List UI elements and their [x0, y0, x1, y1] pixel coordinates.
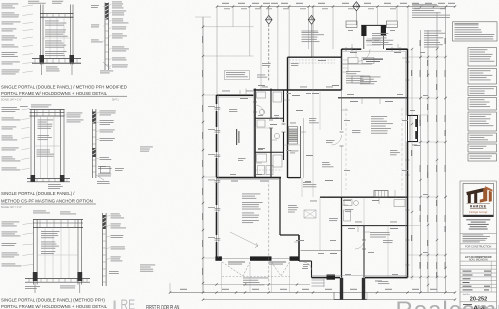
- logo wordmark: [467, 202, 491, 205]
- detail 3 studs: [33, 220, 35, 285]
- garage east wall lower: [280, 234, 299, 236]
- front room window labels: [208, 105, 215, 108]
- detail 2 sill: [27, 178, 70, 180]
- kitchen-greatroom wall: [338, 97, 408, 99]
- bottom dimension lines: [170, 292, 455, 294]
- right dimension rotated texts: [411, 70, 412, 76]
- detail 2 center notes: [38, 120, 54, 129]
- front room west wall: [216, 95, 218, 260]
- shear wall diamond C: [353, 2, 360, 11]
- detail 1: portal frame elevation with holddowns: [2, 4, 19, 9]
- detail 2 right-of-stud labels: [67, 113, 83, 118]
- mid-east wall x341: [341, 49, 343, 90]
- south wall main: [312, 277, 341, 279]
- window ticks on east wall: [406, 61, 410, 63]
- kitchen island: [352, 76, 370, 83]
- hall notes: [303, 182, 316, 187]
- detail 1 center notes: [45, 21, 66, 26]
- garage slope arrows: [230, 232, 258, 246]
- kitchen cabinets detail: [347, 57, 349, 72]
- great room label: [371, 116, 393, 134]
- front room vertical label: [236, 129, 239, 145]
- nook label right: [390, 150, 400, 155]
- detail 3 sill: [25, 278, 90, 280]
- floor plan top dimension line: [217, 6, 455, 8]
- logo box: [463, 184, 494, 217]
- small interior extension lines: [255, 127, 271, 129]
- porch post extensions: [333, 293, 335, 300]
- detail 3 center notes: [41, 231, 60, 238]
- stairs: [289, 129, 298, 141]
- hall vertical reference line: [312, 90, 314, 197]
- detail 1 panel lines: [49, 17, 51, 58]
- detail 1 strip labels: [112, 2, 124, 9]
- master label lower: [370, 232, 390, 237]
- scattered dim texts: [240, 98, 248, 99]
- east exterior wall: [407, 49, 409, 116]
- hall north wall: [254, 89, 342, 91]
- right dimension band extra ticks: [411, 49, 413, 280]
- upper-mid west wall: [287, 57, 289, 178]
- detail 2 strip labels: [100, 111, 116, 116]
- title block rules: [460, 233, 497, 235]
- detail 1 sill plate: [32, 58, 81, 60]
- lower west wall x341: [341, 197, 343, 277]
- stair well wall: [300, 126, 302, 178]
- left extension lines: [203, 26, 254, 28]
- shear wall diamond B: [312, 7, 314, 58]
- entry porch jambs: [361, 25, 366, 36]
- pantry labels: [346, 71, 364, 83]
- interior wall x283: [283, 90, 285, 122]
- kitchen counters: [342, 63, 373, 65]
- garage north wall: [217, 177, 282, 179]
- interior wall x255: [254, 89, 256, 178]
- lower wall x364: [363, 226, 365, 278]
- great room ceiling dashed: [345, 108, 347, 190]
- garage east wall upper: [279, 178, 281, 235]
- left dimension line: [202, 17, 204, 292]
- bay window: [408, 116, 418, 142]
- detail 2 studs: [30, 110, 32, 182]
- extra short tick lines in plan: [239, 90, 241, 95]
- window sill ticks on west wall: [215, 107, 221, 109]
- address lines: [466, 219, 490, 220]
- top right paragraph: [412, 3, 437, 5]
- detail 1 holddowns: [40, 55, 45, 63]
- detail 1 studs: [40, 5, 42, 65]
- rear porch edge: [334, 299, 367, 301]
- lower rooms north wall: [320, 196, 408, 198]
- attic access dashed rect: [304, 210, 316, 218]
- inner face lines of exterior walls: [217, 95, 219, 258]
- garage door edge extension lines: [221, 262, 223, 293]
- mud stoop walls: [299, 260, 312, 262]
- lower wall y225: [342, 225, 408, 227]
- bath partition walls: [255, 117, 284, 119]
- right extension ticks: [408, 56, 446, 58]
- right column small note boxes: [468, 48, 497, 67]
- foyer label: [360, 77, 381, 85]
- title block border: [460, 181, 497, 309]
- general notes box: [453, 22, 498, 41]
- closet shelf dashed lines: [256, 169, 282, 171]
- dining label: [352, 130, 361, 133]
- hall south wall: [301, 250, 342, 252]
- front room north wall: [217, 94, 254, 96]
- title block address bar: [463, 215, 493, 217]
- additional interior text blobs: [229, 109, 237, 112]
- fireplace: [374, 191, 388, 198]
- entry steps: [367, 38, 381, 40]
- kitchen label: [363, 59, 383, 60]
- detail 1 wall section strip: [104, 3, 106, 71]
- extra scattered dimension marks: [222, 90, 230, 93]
- right dimension lines: [420, 30, 422, 292]
- logo mark: [466, 186, 492, 203]
- bath fixtures: [257, 92, 266, 98]
- detail 3 strip labels: [111, 214, 125, 219]
- lower bath fixtures: [344, 200, 352, 206]
- rear porch posts: [340, 278, 343, 300]
- copyright paragraph: [463, 235, 490, 243]
- rear porch label: [378, 281, 389, 284]
- detail 2 panel lines: [40, 116, 42, 179]
- shear wall diamond A: [268, 7, 270, 16]
- interior wall x271: [270, 89, 272, 119]
- title block table rows: [463, 271, 472, 272]
- detail 2 header: [30, 109, 65, 111]
- top extension verticals: [216, 7, 218, 96]
- detail 3 left labels: [2, 222, 20, 227]
- plan note: upper left boxed note: [225, 71, 250, 80]
- top dim second row texts: [224, 7, 230, 10]
- porch post boxes: [346, 21, 357, 28]
- sheet number cell: [460, 301, 497, 303]
- detail 3 header: [33, 219, 83, 221]
- detail 1 header: [40, 13, 74, 15]
- mid north wall: [288, 56, 342, 58]
- window ticks on front wall: [345, 47, 347, 51]
- garage south wall with door openings: [217, 258, 300, 260]
- detail 3 wall section strip: [102, 213, 104, 286]
- plan note: porch paragraph: [372, 33, 393, 45]
- garage door labels: [228, 262, 245, 263]
- garage centerline dashed: [268, 180, 270, 292]
- rear stoop steps: [312, 279, 325, 281]
- door swing arcs: [255, 49, 370, 270]
- detail 2 left labels: [2, 107, 20, 112]
- left exterior notes: [140, 147, 153, 152]
- plan note: hall note left: [302, 32, 325, 42]
- detail 3 panel lines: [44, 228, 46, 279]
- plan note: front room labels: [257, 75, 267, 78]
- laundry fixtures: [258, 166, 265, 175]
- front wall east section: [342, 48, 362, 50]
- detail 3: portal frame with strap anchors: [33, 211, 50, 214]
- garage notes: [242, 194, 260, 199]
- detail 2 wall section strip: [91, 109, 93, 178]
- right wall notes: [424, 31, 445, 48]
- driveway note: [243, 278, 269, 286]
- driveway dashed lines: [222, 262, 243, 276]
- detail 2: portal frame elevation: [31, 105, 51, 108]
- interior door jamb marks: [253, 101, 257, 103]
